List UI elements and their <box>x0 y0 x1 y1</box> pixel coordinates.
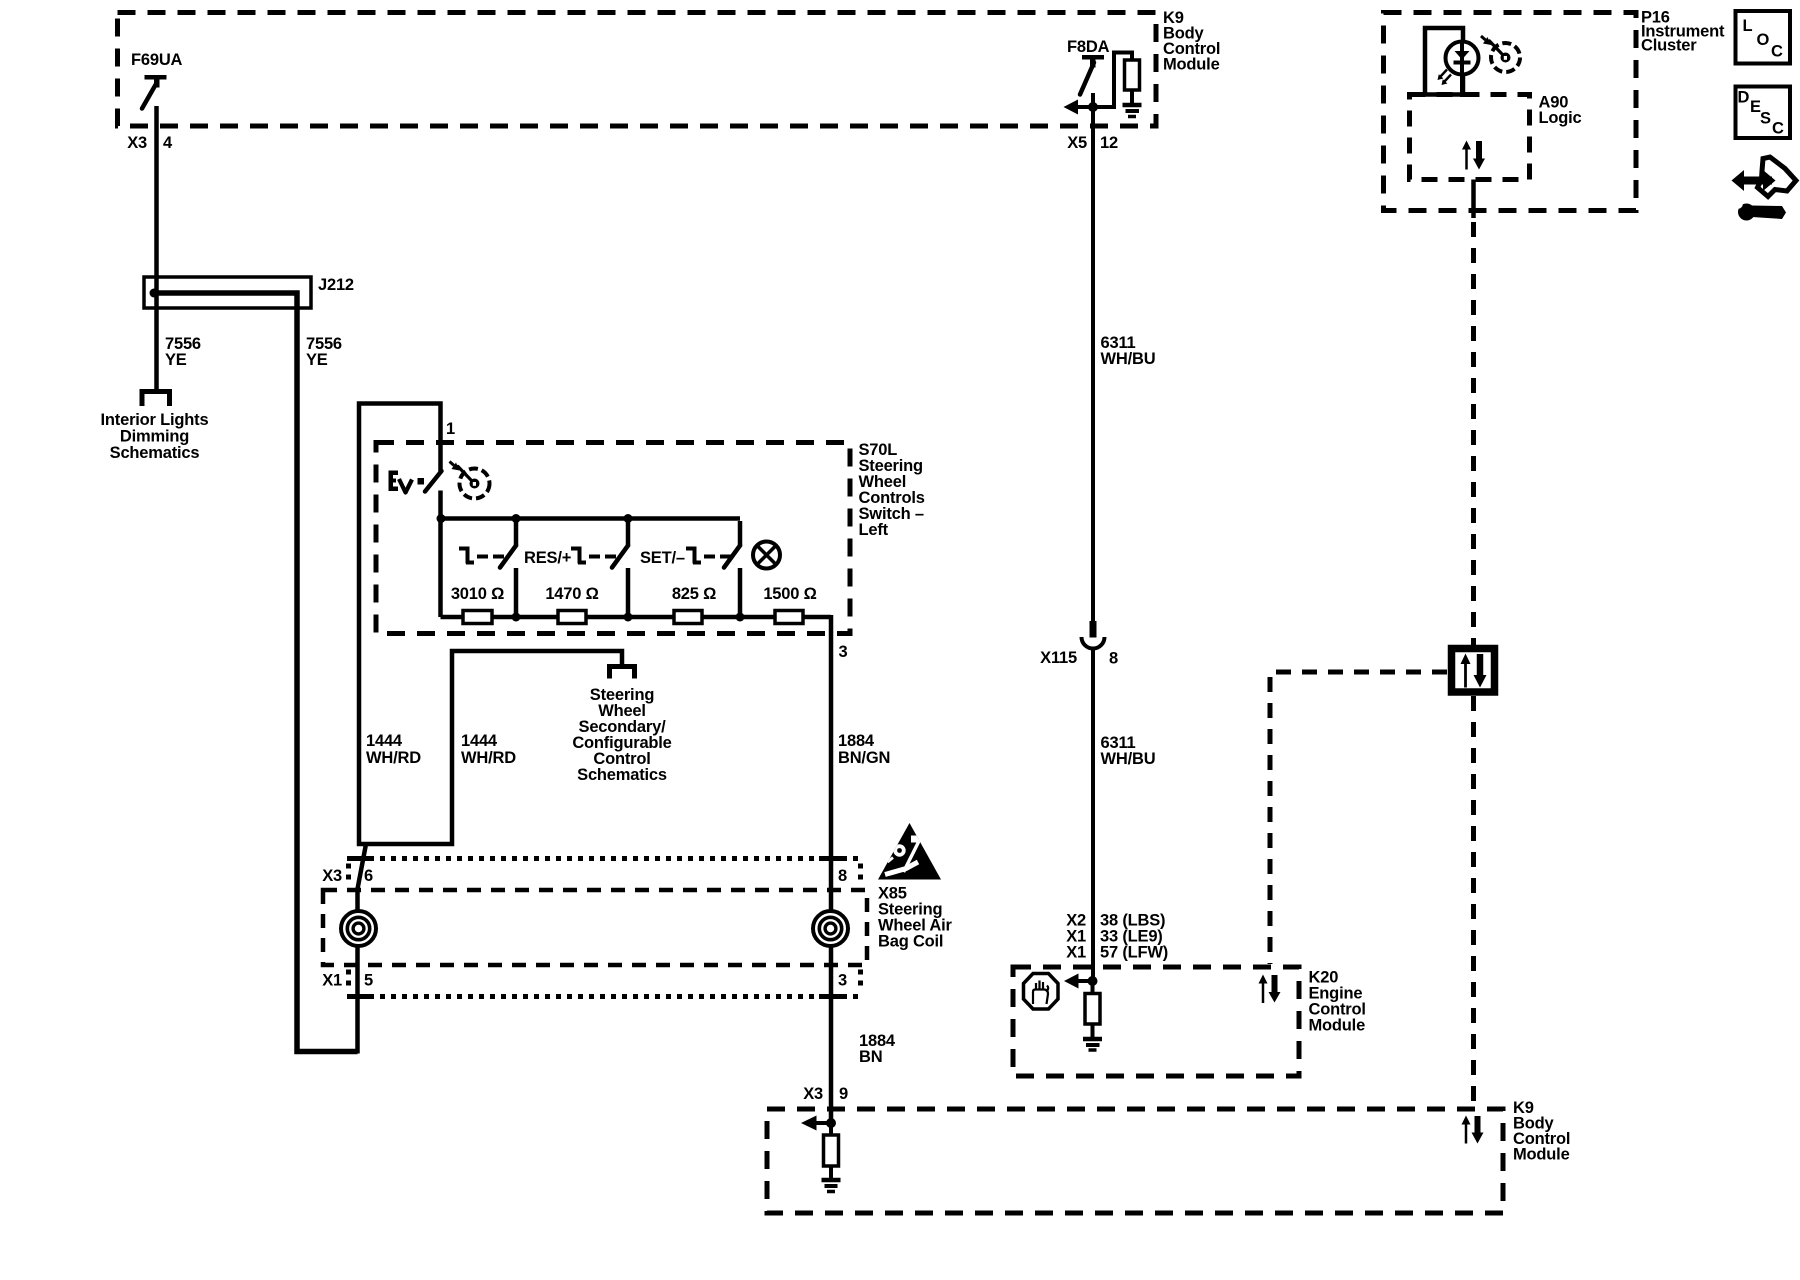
switch cell 1 (3010) <box>459 521 516 619</box>
top bus wire in S70L <box>441 516 741 521</box>
wire junction to resistor (K9 bottom) <box>829 1121 833 1137</box>
K9 body control module box (top) <box>118 13 1157 127</box>
svg-text:X3: X3 <box>803 1085 823 1103</box>
svg-text:12: 12 <box>1100 134 1118 152</box>
svg-text:1884: 1884 <box>838 732 875 750</box>
svg-text:X5: X5 <box>1067 134 1087 152</box>
svg-text:X1: X1 <box>1066 944 1086 962</box>
resistor 825 <box>674 611 702 624</box>
resistor 1500 <box>775 611 803 624</box>
svg-text:X3: X3 <box>127 134 147 152</box>
wire stub below A90 <box>1471 180 1476 219</box>
svg-text:X3: X3 <box>322 867 342 885</box>
svg-text:1500 Ω: 1500 Ω <box>763 585 816 603</box>
serial data arrows (K9 bottom) <box>1462 1116 1484 1144</box>
wire F69UA to J212 to interior lights bracket <box>154 106 159 389</box>
svg-text:Dimming: Dimming <box>120 428 189 446</box>
svg-text:Module: Module <box>1309 1017 1366 1035</box>
svg-text:6: 6 <box>364 867 373 885</box>
svg-text:8: 8 <box>1109 650 1118 668</box>
svg-text:Schematics: Schematics <box>577 766 667 784</box>
resistor (K20) <box>1085 994 1100 1025</box>
K20 engine control module box <box>1013 967 1299 1076</box>
wire 6311 upper run <box>1091 107 1095 621</box>
fuse F69UA <box>142 75 167 109</box>
svg-text:1444: 1444 <box>461 732 498 750</box>
resistor (K9 bottom) <box>824 1135 839 1166</box>
signal arrow (K20) <box>1064 974 1098 989</box>
svg-text:4: 4 <box>163 134 173 152</box>
svg-text:8: 8 <box>838 867 847 885</box>
pin ticks on X3 row <box>348 856 372 861</box>
wire label 1444 WH/RD (right) <box>461 732 516 767</box>
svg-text:F8DA: F8DA <box>1067 38 1110 56</box>
off-page bracket: interior lights <box>142 392 170 407</box>
LOC legend box <box>1736 11 1791 64</box>
serial data dashed link P16 to gateway box <box>1471 222 1476 645</box>
wire diagonal into X3 pin 6 <box>358 844 367 889</box>
X1 row bracket marks <box>346 970 351 991</box>
air bag warning triangle <box>878 823 941 880</box>
K9 body control module label (top) <box>1163 9 1220 74</box>
svg-text:Bag Coil: Bag Coil <box>878 933 943 951</box>
wire resistor to ground <box>829 1166 833 1178</box>
LED indicator <box>1438 42 1479 98</box>
svg-text:C: C <box>1771 43 1783 61</box>
wire label 7556 YE (right) <box>306 335 342 369</box>
svg-text:825 Ω: 825 Ω <box>672 585 716 603</box>
svg-text:Module: Module <box>1163 56 1220 74</box>
wire S70L pin1 feed + 1444 run + secondary-schematics branch <box>359 404 622 845</box>
svg-text:X115: X115 <box>1040 649 1077 667</box>
svg-text:Left: Left <box>859 521 889 539</box>
svg-text:9: 9 <box>839 1085 848 1103</box>
air bag coil (right spiral) <box>813 911 848 946</box>
svg-text:3: 3 <box>838 972 847 990</box>
svg-text:SET/–: SET/– <box>640 549 685 567</box>
connector row X1 dotted line <box>347 994 858 999</box>
resistor 3010 <box>463 611 492 624</box>
ground (K9 bottom) <box>822 1180 841 1192</box>
svg-text:X1: X1 <box>322 972 342 990</box>
svg-text:57 (LFW): 57 (LFW) <box>1100 944 1168 962</box>
wire S70L pin3 down to coil <box>829 615 834 1123</box>
pin ticks on X1 row <box>348 994 372 999</box>
svg-text:WH/RD: WH/RD <box>461 749 516 767</box>
svg-text:5: 5 <box>364 972 373 990</box>
off-page bracket: steering wheel secondary <box>610 667 635 679</box>
svg-text:C: C <box>1772 120 1784 138</box>
svg-text:1444: 1444 <box>366 732 403 750</box>
K20 pin labels <box>1066 912 1168 962</box>
svg-text:Logic: Logic <box>1539 109 1582 127</box>
svg-text:Interior Lights: Interior Lights <box>101 411 209 429</box>
P16 label <box>1641 9 1725 55</box>
X85 steering wheel air bag coil box <box>323 890 867 965</box>
serial data dashed link gateway to K9 <box>1471 696 1476 1106</box>
junction dots on bottom bus <box>512 613 521 622</box>
junction dots on top bus <box>437 514 446 523</box>
X3 row bracket marks <box>346 864 351 885</box>
fuse F8DA <box>1080 55 1104 95</box>
svg-text:L: L <box>1743 17 1753 35</box>
canceled lamp symbol <box>753 542 780 569</box>
svg-text:3010 Ω: 3010 Ω <box>451 585 504 603</box>
data link / diagnostic icon <box>1732 157 1797 221</box>
wire hook to pull-up resistor <box>1093 53 1132 108</box>
interior lights dimming schematics label <box>101 411 209 462</box>
connector row X3 (coil top) dotted line <box>347 856 858 861</box>
steering wheel secondary configurable label <box>572 686 671 784</box>
svg-text:YE: YE <box>306 351 328 369</box>
svg-text:F69UA: F69UA <box>131 51 183 69</box>
inline connector X115 pin 8 <box>1082 621 1105 649</box>
cruise gauge icon (P16) <box>1481 36 1520 72</box>
K9 body control module box (bottom) <box>767 1109 1503 1213</box>
wire cell1 left leg <box>438 519 443 618</box>
A90 logic box <box>1410 95 1530 180</box>
A90 label <box>1539 94 1582 128</box>
svg-text:3: 3 <box>839 643 848 661</box>
main on/off switch S70L <box>389 471 442 521</box>
LED frame <box>1425 28 1463 95</box>
svg-text:O: O <box>1757 31 1770 49</box>
serial data arrows (K20) <box>1259 975 1281 1004</box>
air bag coil (left spiral) <box>341 911 376 946</box>
svg-text:1470 Ω: 1470 Ω <box>545 585 598 603</box>
switch cell 3 (825) <box>686 521 740 619</box>
svg-text:BN/GN: BN/GN <box>838 749 890 767</box>
wire F8DA to junction <box>1091 93 1095 108</box>
DESC legend box <box>1736 87 1791 139</box>
svg-text:BN: BN <box>859 1048 882 1066</box>
wire resistor to ground (K9 top) <box>1130 90 1134 103</box>
splice pack J212 <box>144 277 358 1052</box>
wire label 1884 BN <box>859 1032 896 1066</box>
svg-text:RES/+: RES/+ <box>524 549 571 567</box>
signal arrow (K9 bottom) <box>801 1116 836 1131</box>
serial data gateway box <box>1452 649 1495 693</box>
P16 instrument cluster box <box>1384 13 1637 211</box>
wire coil left leg <box>355 888 360 1054</box>
K20 label <box>1309 969 1366 1035</box>
wire junction to resistor (K20) <box>1091 981 1095 995</box>
svg-text:J212: J212 <box>318 276 354 294</box>
resistor 1470 <box>558 611 586 624</box>
S70L steering wheel controls switch box <box>376 443 850 634</box>
wire label 6311 WH/BU (upper) <box>1101 334 1156 368</box>
svg-text:YE: YE <box>165 351 187 369</box>
resistor (K9 top) <box>1125 60 1140 90</box>
signal arrow (F8DA) <box>1064 100 1099 115</box>
svg-text:1: 1 <box>446 420 455 438</box>
wire 6311 lower run <box>1091 649 1095 982</box>
wire resistor to ground (K20) <box>1091 1024 1095 1037</box>
hand/stop octagon (K20) <box>1024 974 1059 1010</box>
svg-text:WH/BU: WH/BU <box>1101 750 1156 768</box>
serial data dashed branch to K20 <box>1270 672 1447 964</box>
ground (K20) <box>1083 1039 1102 1050</box>
svg-text:Cluster: Cluster <box>1641 37 1697 55</box>
cruise gauge icon (S70L) <box>450 462 490 499</box>
wire label 7556 YE (left) <box>165 335 201 369</box>
switch cell 2 (1470) <box>571 521 628 619</box>
svg-text:WH/BU: WH/BU <box>1101 350 1156 368</box>
S70L label <box>859 441 925 539</box>
svg-text:WH/RD: WH/RD <box>366 749 421 767</box>
resistor value labels <box>451 585 817 603</box>
K9 label (bottom) <box>1513 1099 1570 1164</box>
serial data arrows (A90) <box>1462 141 1485 170</box>
wire label 1884 BN/GN <box>838 732 890 767</box>
svg-text:S: S <box>1760 110 1771 128</box>
svg-text:D: D <box>1738 89 1750 107</box>
svg-text:Schematics: Schematics <box>110 444 200 462</box>
ground (K9 top) <box>1123 105 1142 117</box>
wire label 1444 WH/RD (left) <box>366 732 421 767</box>
wire label 6311 WH/BU (lower) <box>1101 734 1156 768</box>
svg-text:Module: Module <box>1513 1146 1570 1164</box>
serial data arrows (gateway) <box>1461 654 1487 688</box>
bottom resistor bus in S70L <box>441 615 832 620</box>
X85 air bag coil label <box>878 885 952 951</box>
